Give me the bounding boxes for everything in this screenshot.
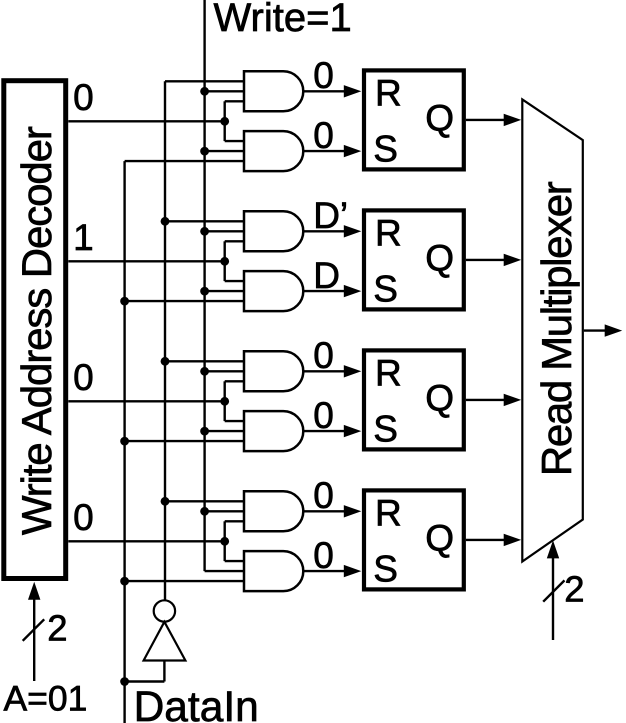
wire Write to AND gate A4b middle input (205, 570, 244, 572)
wire Write to AND gate A4a middle input (205, 510, 244, 512)
wire D' to AND gate A4a top input (165, 500, 244, 502)
wire DataIn vertical (123, 161, 125, 723)
arrowhead into U3 pin S (344, 425, 362, 437)
junction Write branch to A1b (200, 147, 209, 156)
svg-text:0: 0 (313, 55, 334, 96)
svg-text:S: S (373, 268, 398, 309)
AND gate A1a (244, 71, 303, 111)
AND gate A4a (244, 491, 303, 531)
arrowhead mux output (605, 324, 623, 336)
wire AND A4b output to S input (303, 570, 346, 572)
svg-text:Q: Q (425, 237, 454, 278)
junction DataIn / inverter input (120, 677, 129, 686)
junction Write branch to A4a (200, 507, 209, 516)
flip-flop U4 (RS latch) (364, 490, 464, 589)
junction Write branch to A3b (200, 427, 209, 436)
svg-text:0: 0 (313, 535, 334, 576)
junction DataIn branch group 3 (120, 437, 129, 446)
junction row4 stub on decoder row (220, 537, 229, 546)
svg-text:Write=1: Write=1 (214, 0, 352, 40)
svg-text:D’: D’ (313, 195, 348, 236)
svg-text:1: 1 (73, 217, 94, 258)
arrowhead into U1 pin R (344, 85, 362, 97)
wire row2 stub vertical (223, 241, 225, 281)
AND gate A4b (244, 551, 303, 591)
wire mux output (584, 329, 608, 331)
flip-flop U1 (RS latch) (364, 70, 464, 169)
junction D' branch group 2 (161, 217, 170, 226)
junction Write branch to A2b (200, 287, 209, 296)
svg-text:R: R (375, 72, 402, 113)
node decoder output row 4 (68, 540, 224, 542)
wire AND A3b output to S input (303, 430, 346, 432)
svg-text:0: 0 (73, 77, 94, 118)
wire stub to AND gate A1b top input (225, 140, 244, 142)
wire AND A1b output to S input (303, 150, 346, 152)
arrowhead mux select (547, 540, 559, 558)
svg-text:Q: Q (425, 517, 454, 558)
junction Write branch to A2a (200, 227, 209, 236)
svg-text:R: R (375, 212, 402, 253)
wire row4 stub vertical (223, 521, 225, 561)
wire D' to AND gate A2a top input (165, 220, 244, 222)
svg-text:Q: Q (425, 97, 454, 138)
wire Write to AND gate A3b middle input (205, 430, 244, 432)
arrowhead into U2 pin R (344, 225, 362, 237)
svg-text:0: 0 (73, 357, 94, 398)
wire Write to AND gate A3a middle input (205, 370, 244, 372)
arrowhead U1 Q into mux input 0 (504, 114, 522, 126)
svg-text:S: S (373, 408, 398, 449)
svg-text:D: D (313, 255, 340, 296)
node decoder output row 3 (68, 400, 224, 402)
AND gate A2a (244, 211, 303, 251)
svg-text:Write Address Decoder: Write Address Decoder (13, 126, 60, 535)
wire D' to AND gate A3a top input (165, 360, 244, 362)
junction Write branch to A3a (200, 367, 209, 376)
arrowhead into decoder (28, 582, 40, 600)
wire DataIn to AND gate A2b bottom input (125, 300, 244, 302)
wire Write to AND gate A2a middle input (205, 230, 244, 232)
svg-text:2: 2 (47, 608, 67, 649)
wire stub to AND gate A4a bottom input (225, 520, 244, 522)
arrowhead into U2 pin S (344, 285, 362, 297)
svg-text:0: 0 (313, 475, 334, 516)
wire AND A2b output to S input (303, 290, 346, 292)
wire DataIn to AND gate A3b bottom input (125, 440, 244, 442)
wire A address input (33, 597, 35, 681)
wire DataIn to inverter input (125, 680, 165, 682)
wire U2 Q output to mux (466, 259, 507, 261)
wire mux select input (552, 556, 554, 640)
svg-text:0: 0 (313, 335, 334, 376)
wire row3 stub vertical (223, 381, 225, 421)
AND gate A1b (244, 131, 303, 171)
bus slash A input (23, 619, 45, 641)
wire stub to AND gate A2b top input (225, 280, 244, 282)
arrowhead U2 Q into mux input 1 (504, 254, 522, 266)
AND gate A3a (244, 351, 303, 391)
arrowhead into U3 pin R (344, 365, 362, 377)
wire U3 Q output to mux (466, 399, 507, 401)
wire D' to AND gate A1a top input (165, 80, 244, 82)
svg-text:Read Multiplexer: Read Multiplexer (533, 181, 580, 476)
AND gate A3b (244, 411, 303, 451)
svg-text:S: S (373, 548, 398, 589)
wire U4 Q output to mux (466, 539, 507, 541)
node decoder output row 1 (68, 120, 224, 122)
svg-text:DataIn: DataIn (134, 684, 259, 723)
wire AND A4a output to R input (303, 510, 346, 512)
mux M1 (read multiplexer) (522, 99, 583, 561)
svg-text:A=01: A=01 (4, 678, 88, 718)
wire AND A1a output to R input (303, 90, 346, 92)
arrowhead U4 Q into mux input 3 (504, 534, 522, 546)
wire AND A2a output to R input (303, 230, 346, 232)
arrowhead into U4 pin R (344, 505, 362, 517)
junction row1 stub on decoder row (220, 117, 229, 126)
arrowhead into U4 pin S (344, 565, 362, 577)
wire Write vertical (203, 0, 205, 571)
bus slash mux select (543, 580, 564, 601)
junction Write branch to A1a (200, 87, 209, 96)
wire D' vertical (inverter output) (164, 81, 166, 600)
wire stub to AND gate A3a bottom input (225, 380, 244, 382)
wire stub to AND gate A2a bottom input (225, 240, 244, 242)
wire DataIn to AND gate A4b bottom input (125, 580, 244, 582)
svg-text:S: S (373, 128, 398, 169)
svg-text:2: 2 (564, 569, 584, 610)
wire Write to AND gate A1b middle input (205, 150, 244, 152)
svg-text:0: 0 (313, 115, 334, 156)
arrowhead into U1 pin S (344, 145, 362, 157)
flip-flop U2 (RS latch) (364, 210, 464, 309)
junction D' branch group 4 (161, 497, 170, 506)
inverter G1 bubble (154, 600, 175, 621)
decoder U1 box (4, 81, 66, 579)
junction DataIn branch group 4 (120, 577, 129, 586)
flip-flop U3 (RS latch) (364, 350, 464, 449)
svg-text:R: R (375, 492, 402, 533)
wire Write to AND gate A1a middle input (205, 90, 244, 92)
arrowhead U3 Q into mux input 2 (504, 394, 522, 406)
wire stub to AND gate A1a bottom input (225, 100, 244, 102)
svg-text:0: 0 (313, 395, 334, 436)
AND gate A2b (244, 271, 303, 311)
junction D' branch group 3 (161, 357, 170, 366)
svg-text:0: 0 (73, 497, 94, 538)
junction DataIn branch group 2 (120, 297, 129, 306)
junction row3 stub on decoder row (220, 397, 229, 406)
wire DataIn to AND gate A1b bottom input (125, 160, 244, 162)
inverter G1 triangle (144, 622, 186, 661)
junction row2 stub on decoder row (220, 257, 229, 266)
node decoder output row 2 (68, 260, 224, 262)
wire inverter input riser (163, 661, 165, 682)
svg-text:Q: Q (425, 377, 454, 418)
wire row1 stub vertical (223, 101, 225, 141)
wire AND A3a output to R input (303, 370, 346, 372)
svg-text:R: R (375, 352, 402, 393)
wire U1 Q output to mux (466, 119, 507, 121)
wire stub to AND gate A4b top input (225, 560, 244, 562)
wire Write to AND gate A2b middle input (205, 290, 244, 292)
wire stub to AND gate A3b top input (225, 420, 244, 422)
